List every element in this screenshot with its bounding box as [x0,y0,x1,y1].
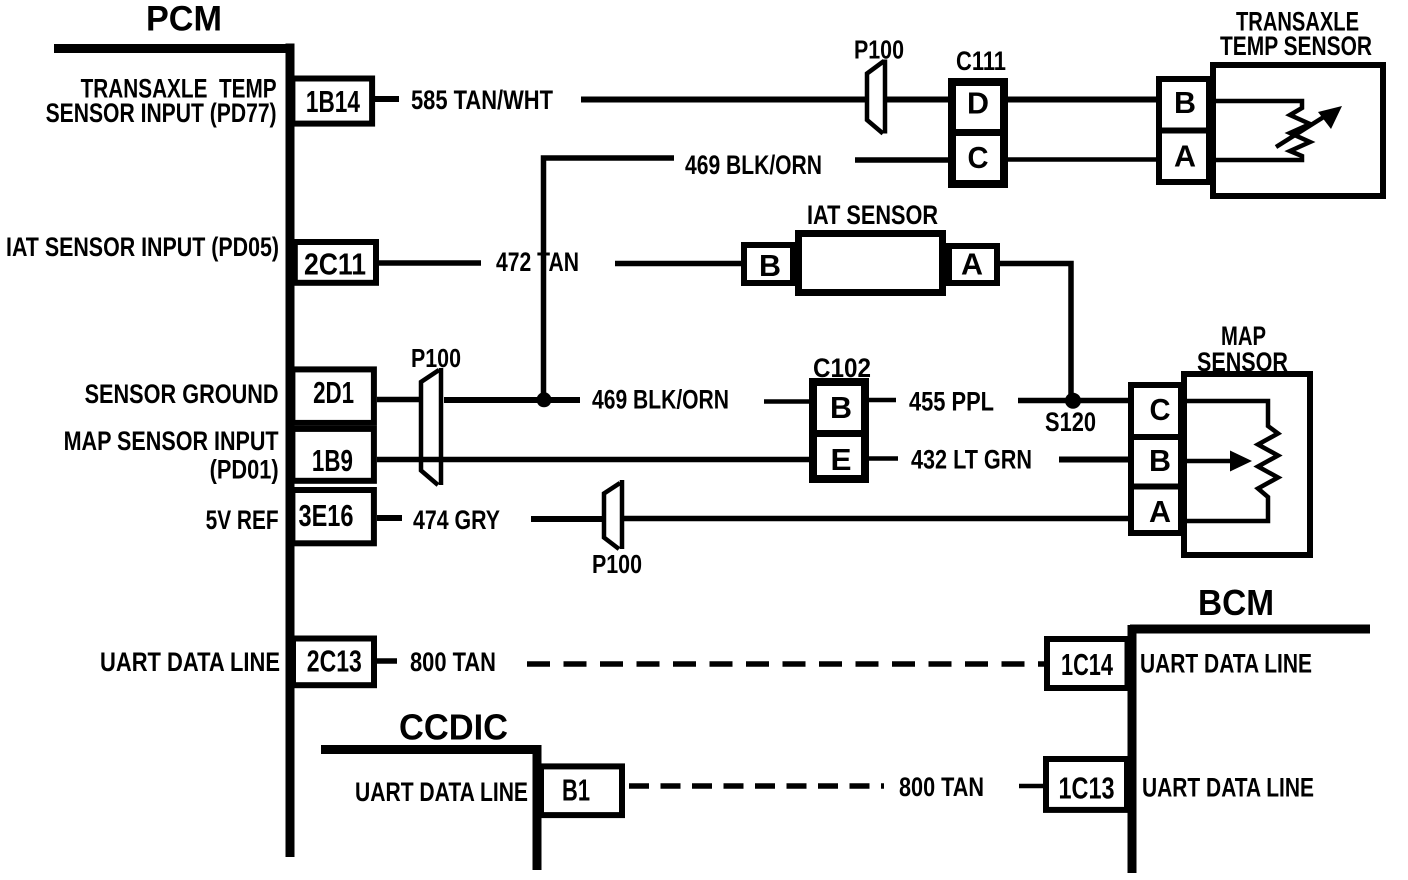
svg-text:1B14: 1B14 [306,84,361,119]
connector P100 mid symbol [421,368,441,485]
IAT sensor body [799,234,943,293]
PCM vertical line [286,44,295,858]
svg-text:800 TAN: 800 TAN [899,772,984,802]
svg-text:A: A [961,247,983,282]
terminal 1B9 [292,429,374,481]
svg-text:2C11: 2C11 [304,247,366,282]
CCDIC vertical line [533,745,542,870]
svg-text:455 PPL: 455 PPL [909,386,994,416]
svg-text:TEMP SENSOR: TEMP SENSOR [1220,31,1372,61]
svg-text:C111: C111 [956,46,1006,76]
connector C111 body [948,82,1008,184]
wire 432 to MAP B [1059,457,1128,463]
wire 472 TAN left [379,260,481,266]
MAP connector C/B/A [1128,385,1184,533]
svg-text:1C13: 1C13 [1059,771,1115,806]
CCDIC top horizontal line [321,745,541,754]
svg-text:C: C [968,140,989,175]
MAP potentiometer internal wiring [1184,401,1278,521]
dashed wire 800 TAN to 1C14 [527,661,1044,667]
connector P100 top symbol [867,60,885,134]
wire stub to 1C13 [1019,784,1046,789]
wire C102 E stub [869,456,898,461]
terminal 1B14 [292,79,372,124]
terminal 1C13 [1046,759,1127,810]
label MAP SENSOR INPUT (PD01) [64,426,279,484]
wire 474 to MAP A [624,516,1128,522]
svg-text:432 LT GRN: 432 LT GRN [911,444,1032,474]
dashed wire B1 to 800 TAN [629,783,884,789]
svg-text:1B9: 1B9 [312,443,353,478]
terminal 2D1 [292,369,374,423]
wire 2D1 to P100 [377,397,421,403]
svg-text:B: B [830,390,852,425]
wire 2C13 stub [377,658,397,664]
svg-text:474 GRY: 474 GRY [413,505,500,535]
svg-text:1C14: 1C14 [1061,647,1114,682]
wire 472 TAN right [615,261,741,267]
wire 469 corner and vertical [544,158,675,400]
svg-text:469 BLK/ORN: 469 BLK/ORN [592,385,729,415]
svg-text:BCM: BCM [1198,582,1274,623]
BCM vertical line [1128,625,1137,873]
wire IAT A to S120 [1000,264,1071,399]
transaxle connector B/A [1156,79,1212,182]
svg-text:IAT SENSOR: IAT SENSOR [807,200,938,230]
svg-text:2D1: 2D1 [313,375,354,410]
BCM top horizontal line [1130,625,1370,634]
wire P100 to C111 D [887,97,948,103]
transaxle temp sensor box [1213,65,1383,196]
svg-text:SENSOR INPUT (PD77): SENSOR INPUT (PD77) [46,98,277,128]
svg-text:MAP SENSOR INPUT: MAP SENSOR INPUT [64,426,279,456]
svg-text:585 TAN/WHT: 585 TAN/WHT [411,85,553,115]
splice S120 dot [1065,393,1081,409]
svg-text:469 BLK/ORN: 469 BLK/ORN [685,150,822,180]
svg-text:(PD01): (PD01) [210,454,279,484]
wire 469 BLK/ORN upper run [855,157,948,163]
terminal B1 [541,766,622,815]
IAT pin A [949,246,997,283]
svg-text:CCDIC: CCDIC [399,707,508,748]
svg-text:UART DATA LINE: UART DATA LINE [355,777,528,807]
svg-text:B: B [1149,443,1171,478]
svg-text:E: E [831,442,852,477]
junction dot 469 [537,392,552,407]
svg-text:B: B [1174,85,1196,120]
svg-text:800 TAN: 800 TAN [410,647,496,677]
svg-text:S120: S120 [1045,407,1096,437]
wire 3E16 stub [377,515,402,521]
PCM top horizontal line [54,44,294,53]
svg-text:IAT SENSOR INPUT (PD05): IAT SENSOR INPUT (PD05) [6,232,279,262]
wire C111 C to transaxle connector A [1008,157,1156,162]
svg-text:B: B [759,248,781,283]
terminal 3E16 [292,490,374,543]
transaxle thermistor internal wiring [1212,101,1342,160]
wire C102 B stub [869,398,896,403]
connector P100 bottom symbol [604,480,622,549]
svg-text:P100: P100 [411,343,461,373]
svg-text:P100: P100 [592,549,642,579]
svg-text:UART DATA LINE: UART DATA LINE [100,647,280,677]
svg-text:PCM: PCM [146,0,222,39]
wire 1B9 through P100 to C102 E [377,457,811,463]
connector C102 body [809,382,869,479]
terminal 1C14 [1047,639,1128,688]
MAP SENSOR title [1197,321,1288,377]
svg-text:2C13: 2C13 [307,644,362,679]
wire P100 to junction [444,397,580,403]
TRANSAXLE TEMP SENSOR title [1220,7,1372,61]
label TRANSAXLE TEMP SENSOR INPUT (PD77) [46,74,277,128]
wire 455 PPL to MAP C [1018,398,1128,404]
svg-text:472 TAN: 472 TAN [496,247,579,277]
wire 469 to C102 [764,399,811,404]
svg-text:5V REF: 5V REF [206,505,279,535]
wire C111 D to transaxle connector B [1008,97,1156,103]
svg-text:UART DATA LINE: UART DATA LINE [1142,772,1314,802]
svg-text:B1: B1 [562,773,590,808]
terminal 2C13 [293,639,374,686]
svg-text:3E16: 3E16 [299,498,354,533]
wire stub 1B14 [375,96,399,102]
svg-text:A: A [1149,494,1171,529]
svg-text:A: A [1174,139,1196,174]
svg-text:SENSOR GROUND: SENSOR GROUND [85,379,279,409]
svg-text:C: C [1150,392,1171,427]
svg-text:UART DATA LINE: UART DATA LINE [1140,648,1312,678]
svg-text:D: D [967,86,989,121]
MAP sensor box [1184,374,1310,555]
svg-text:P100: P100 [854,34,904,64]
wire 474 to P100 [531,516,604,522]
terminal 2C11 [295,242,376,283]
wire 585 to P100 [581,97,866,103]
IAT pin B [744,245,793,283]
